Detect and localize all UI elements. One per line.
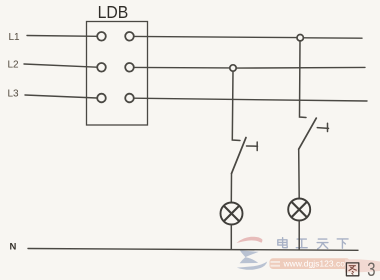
svg-text:L3: L3 — [8, 89, 20, 100]
svg-text:N: N — [10, 242, 17, 253]
svg-text:L2: L2 — [8, 60, 20, 71]
svg-text:L1: L1 — [9, 32, 21, 43]
svg-text:www.dgjs123.com: www.dgjs123.com — [283, 259, 353, 269]
svg-text:LDB: LDB — [98, 2, 129, 22]
svg-text:3: 3 — [367, 259, 375, 280]
